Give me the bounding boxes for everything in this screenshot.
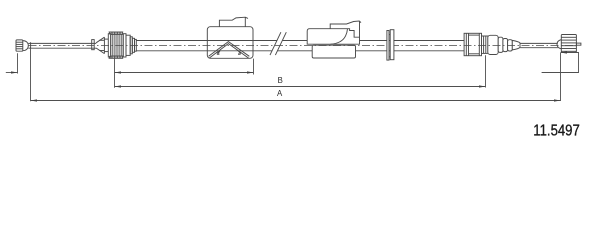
stop washer on rod bbox=[92, 40, 95, 50]
bracket 1 hatch tick right leg bbox=[238, 51, 241, 54]
bellows boot bump 3 bbox=[503, 39, 508, 52]
grommet disc small bbox=[387, 31, 389, 61]
bracket 2 top flag bbox=[330, 21, 361, 37]
dimension line A bbox=[31, 100, 561, 102]
extension line bracket 1 bbox=[253, 59, 255, 75]
outer cable sheath top line bbox=[136, 40, 464, 42]
bracket 1 hatch tick left leg bbox=[217, 51, 220, 54]
extension line fitting bbox=[114, 59, 116, 88]
centerline axis dash-dot bbox=[29, 45, 579, 47]
bracket 1 tent inner bbox=[209, 44, 248, 59]
bellows boot bump 4 bbox=[508, 40, 513, 51]
right nipple hatched cylinder bbox=[561, 35, 576, 53]
dimension line B bbox=[115, 86, 486, 88]
right nipple dome bbox=[557, 40, 561, 49]
arrowhead jog right bbox=[561, 51, 568, 53]
dimension jog right bbox=[542, 53, 579, 73]
bracket 2 cable S-curve bbox=[331, 29, 348, 45]
bellows boot bump 1 bbox=[488, 35, 498, 54]
wire inner rod left bbox=[28, 42, 96, 48]
dimension graphics bbox=[6, 47, 579, 101]
bellows boot bump 2 bbox=[498, 37, 503, 52]
extension line right nipple bbox=[560, 53, 562, 101]
left nipple dome cap bbox=[23, 41, 29, 51]
right nipple pin bbox=[576, 43, 581, 45]
bracket 1 top flag bbox=[219, 17, 248, 27]
bracket clip 2 lower block bbox=[312, 45, 355, 58]
dimension line fitting to bracket bbox=[115, 72, 254, 74]
inner cable stub dimension left bbox=[6, 72, 18, 74]
serrated band bottom bbox=[109, 56, 124, 58]
adjuster collar bbox=[482, 36, 488, 53]
outer cable sheath bottom line bbox=[136, 50, 464, 52]
bracket clip 1 outline bbox=[207, 27, 253, 59]
extension line left nipple bbox=[17, 53, 19, 73]
arrowhead A right bbox=[554, 99, 561, 101]
arrowhead left stub bbox=[11, 71, 18, 73]
svg-text:11.5497: 11.5497 bbox=[533, 123, 580, 139]
abutment cone barbs of fitting bbox=[96, 37, 104, 53]
arrowhead dim1 left bbox=[115, 71, 122, 73]
fitting rear cylinder bbox=[126, 35, 130, 55]
extension line A left bbox=[30, 47, 32, 101]
svg-text:A: A bbox=[277, 89, 283, 98]
fitting stepped outlet bbox=[130, 37, 136, 54]
extension line adjuster bbox=[485, 55, 487, 87]
grommet fitting flange A bbox=[108, 34, 110, 57]
fitting flange B bbox=[123, 34, 126, 57]
left nipple hatched cylinder bbox=[16, 40, 23, 51]
svg-text:B: B bbox=[278, 76, 283, 85]
arrowhead B left bbox=[115, 85, 122, 87]
cable break symbol bbox=[270, 32, 286, 55]
wire rod right bbox=[520, 43, 558, 47]
arrowhead A left bbox=[31, 99, 38, 101]
fitting neck bbox=[104, 39, 108, 52]
arrowhead dim1 right bbox=[247, 71, 254, 73]
bellows end cone bbox=[512, 40, 520, 50]
arrowhead B right bbox=[479, 85, 486, 87]
bracket 1 tent outer bbox=[209, 42, 250, 57]
bracket 2 upper body bbox=[307, 29, 359, 45]
grommet middle hub edges bbox=[389, 34, 390, 36]
serrated band top bbox=[109, 32, 124, 34]
adjuster body right bbox=[464, 33, 481, 55]
grommet disc large bbox=[390, 30, 394, 60]
ribbed body of fitting bbox=[111, 34, 124, 56]
